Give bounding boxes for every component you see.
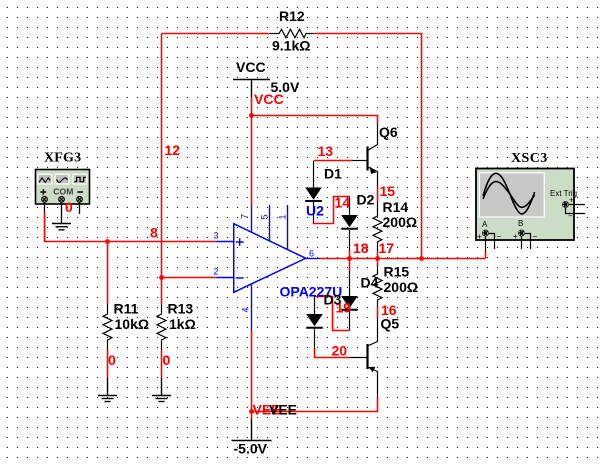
XFG3 minus terminal stem — [79, 202, 81, 214]
XFG3 square-wave button — [72, 174, 87, 185]
XFG3 plus mark — [40, 189, 46, 195]
svg-text:1kΩ: 1kΩ — [169, 316, 196, 332]
junction node 18 — [347, 256, 352, 261]
wire node 13 — [314, 160, 353, 162]
resistor R15 — [377, 259, 379, 267]
junction right rail — [419, 256, 424, 261]
wire R11 to ground, net 0 — [107, 350, 109, 378]
svg-text:14: 14 — [335, 195, 351, 211]
op-amp pin 7 stub — [251, 205, 253, 233]
wire node 12 to op-amp pin2 — [162, 277, 217, 279]
channel B stem — [521, 236, 523, 249]
wire net 19 (D4 cathode to D3 anode) — [315, 297, 350, 331]
wire Q5 emitter to VEE rail — [252, 398, 378, 412]
power VCC symbol — [233, 80, 270, 98]
svg-text:15: 15 — [380, 183, 396, 199]
wire op-amp pin4 to VEE — [251, 330, 253, 419]
wire net 14 (D1 cathode to D2 anode) — [314, 197, 350, 224]
svg-text:Q5: Q5 — [381, 316, 400, 332]
svg-text:XFG3: XFG3 — [44, 151, 81, 166]
svg-text:18: 18 — [353, 240, 369, 256]
svg-text:COM: COM — [53, 187, 73, 197]
svg-text:D3: D3 — [324, 292, 342, 308]
diode D4 — [349, 259, 351, 272]
svg-text:17: 17 — [379, 240, 395, 256]
wire D2 to node 18 — [349, 250, 351, 259]
XFG3 COM stem to ground — [61, 202, 63, 223]
ground under R11 — [98, 378, 117, 402]
wire VCC to Q6 collector — [252, 116, 378, 125]
XFG3 minus mark — [77, 191, 83, 193]
resistor R11 — [103, 304, 112, 350]
channel A stem — [485, 236, 487, 251]
svg-text:3: 3 — [214, 231, 219, 241]
svg-text:R13: R13 — [168, 301, 194, 317]
svg-text:R14: R14 — [383, 199, 409, 215]
op-amp pin 5 stub — [269, 205, 271, 241]
svg-text:R12: R12 — [279, 8, 305, 24]
svg-text:D2: D2 — [357, 192, 375, 208]
op-amp pin 3 stub — [216, 241, 234, 243]
svg-text:6: 6 — [309, 249, 314, 259]
diode D3 — [306, 297, 323, 350]
op-amp minus marker — [236, 277, 244, 279]
junction VEE — [249, 409, 254, 414]
wire net 8 from XFG3 to op-amp pin3 — [45, 213, 217, 242]
svg-text:−: − — [568, 212, 573, 221]
wire node 8 down to R11 — [107, 242, 109, 305]
resistor R12 — [270, 29, 314, 37]
junction node 8 / R11 — [105, 239, 110, 244]
svg-text:-5.0V: -5.0V — [234, 441, 268, 457]
svg-text:VCC: VCC — [254, 91, 284, 107]
channel A terminal — [482, 230, 489, 237]
svg-text:VEE: VEE — [269, 402, 297, 418]
op-amp plus marker — [236, 238, 244, 246]
svg-text:−: − — [497, 232, 502, 241]
junction node 17 — [375, 256, 380, 261]
wire R13 to ground, net 0 — [161, 350, 163, 378]
ground under R13 — [152, 378, 171, 402]
op-amp pin 2 stub — [216, 277, 234, 279]
wire net 16 — [377, 306, 379, 318]
diode D2 — [341, 197, 358, 251]
svg-text:VCC: VCC — [236, 59, 266, 75]
op-amp output wire (net 17/18) — [320, 258, 486, 260]
svg-text:9.1kΩ: 9.1kΩ — [272, 38, 310, 54]
svg-text:+: + — [477, 232, 482, 241]
scope waveform trace 1 — [483, 173, 535, 214]
XFG3 terminals — [42, 196, 48, 202]
svg-text:+: + — [513, 232, 518, 241]
XFG3 triangle-wave button — [37, 174, 52, 185]
svg-text:0: 0 — [163, 352, 171, 368]
op-amp pin 4 stub — [251, 285, 253, 330]
svg-text:2: 2 — [214, 267, 219, 277]
svg-text:D4: D4 — [361, 275, 379, 291]
op-amp pin 6 stub — [306, 258, 320, 260]
svg-text:R11: R11 — [114, 301, 139, 317]
resistor R14 — [373, 202, 382, 251]
scope waveform trace 2 — [483, 182, 535, 208]
junction VCC — [249, 113, 254, 118]
svg-text:20: 20 — [332, 343, 348, 359]
power VEE symbol — [232, 419, 272, 441]
svg-text:1: 1 — [278, 214, 288, 219]
svg-text:7: 7 — [240, 214, 250, 219]
svg-text:−: − — [533, 232, 538, 241]
svg-text:4: 4 — [241, 307, 251, 312]
ground under XFG3 COM — [52, 224, 71, 230]
svg-text:D1: D1 — [324, 166, 342, 182]
op-amp U2 triangle — [216, 205, 320, 330]
svg-text:13: 13 — [318, 143, 334, 159]
resistor R13 — [157, 304, 166, 350]
svg-text:8: 8 — [150, 225, 158, 241]
svg-text:0: 0 — [65, 199, 73, 215]
junction node 12 / pin2 — [159, 275, 164, 280]
Ext Trig terminal — [562, 201, 569, 208]
wire R12 right to right-rail — [314, 34, 422, 259]
svg-text:5: 5 — [260, 214, 270, 219]
wire net 15 — [377, 187, 379, 202]
svg-text:0: 0 — [108, 352, 116, 368]
wire R14 to node 17 — [377, 251, 379, 259]
transistor Q5 (PNP) — [350, 318, 378, 398]
XFG3 sine-wave button — [55, 174, 70, 185]
svg-text:U2: U2 — [306, 203, 324, 219]
wire net 20 (D3 cathode to Q5 base) — [315, 349, 351, 358]
op-amp pin 1 stub — [287, 205, 289, 250]
XFG3 plus terminal stem — [44, 202, 46, 213]
svg-text:+: + — [569, 196, 574, 205]
svg-text:A: A — [482, 220, 488, 229]
wire scope A to output node — [485, 251, 487, 259]
diode D1 — [305, 161, 322, 223]
svg-text:R15: R15 — [384, 264, 410, 280]
svg-text:200Ω: 200Ω — [384, 279, 419, 295]
wire net 12 horizontal to R12 — [162, 33, 271, 35]
channel B terminal — [518, 230, 525, 237]
svg-text:12: 12 — [165, 142, 181, 158]
scope screen frame — [479, 172, 545, 217]
svg-text:B: B — [518, 219, 523, 228]
wire net 12 vertical from R12 left to R13 — [161, 34, 163, 305]
svg-text:XSC3: XSC3 — [511, 151, 548, 166]
svg-text:Q6: Q6 — [379, 124, 398, 140]
transistor Q6 (NPN) — [352, 124, 378, 187]
svg-text:200Ω: 200Ω — [383, 214, 418, 230]
wire VCC to op-amp pin7 — [251, 97, 253, 205]
svg-text:10kΩ: 10kΩ — [115, 316, 150, 332]
